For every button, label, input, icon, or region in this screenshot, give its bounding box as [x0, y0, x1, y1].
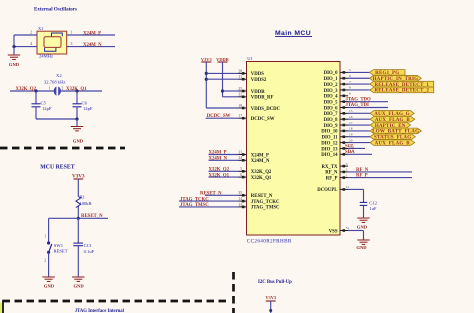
svg-text:7: 7 — [349, 80, 351, 84]
svg-text:2: 2 — [44, 259, 46, 263]
svg-text:12: 12 — [346, 185, 350, 189]
svg-text:5: 5 — [240, 167, 242, 171]
svg-text:X24M_N: X24M_N — [83, 43, 102, 48]
svg-text:5: 5 — [349, 68, 351, 72]
svg-text:MCU RESET: MCU RESET — [40, 164, 74, 170]
svg-text:DCOUPL: DCOUPL — [317, 188, 337, 193]
svg-text:External Oscillators: External Oscillators — [34, 7, 77, 12]
svg-text:DIO_14: DIO_14 — [321, 153, 338, 158]
svg-text:28: 28 — [238, 69, 242, 73]
svg-text:VDDS_DCDC: VDDS_DCDC — [251, 107, 281, 112]
svg-text:6: 6 — [240, 173, 242, 177]
svg-text:X1: X1 — [38, 26, 43, 31]
svg-text:RX_TX: RX_TX — [322, 165, 339, 170]
svg-text:X24M_P: X24M_P — [83, 31, 101, 36]
svg-text:32: 32 — [238, 93, 242, 97]
svg-text:DIO_13: DIO_13 — [321, 147, 338, 152]
svg-text:DIO_0: DIO_0 — [324, 71, 338, 76]
svg-text:13: 13 — [238, 203, 242, 207]
svg-text:16: 16 — [349, 115, 353, 119]
svg-text:JTAG Interface Internal: JTAG Interface Internal — [75, 309, 125, 313]
svg-text:X32K_Q1: X32K_Q1 — [251, 176, 272, 181]
svg-text:DIO_5: DIO_5 — [324, 100, 338, 105]
svg-text:8: 8 — [349, 86, 351, 90]
svg-text:GND: GND — [356, 245, 367, 250]
svg-text:18: 18 — [238, 104, 242, 108]
svg-text:VSS: VSS — [329, 229, 338, 234]
svg-text:3: 3 — [71, 42, 73, 46]
svg-text:3: 3 — [346, 162, 348, 166]
svg-text:DIO_9: DIO_9 — [324, 124, 338, 129]
svg-text:JTAG_TMSC: JTAG_TMSC — [251, 206, 280, 211]
svg-text:12pF: 12pF — [83, 106, 93, 111]
svg-text:12pF: 12pF — [42, 106, 52, 111]
svg-text:DIO_4: DIO_4 — [324, 95, 338, 100]
svg-text:RF_P: RF_P — [326, 176, 338, 181]
svg-text:DIO_1: DIO_1 — [324, 77, 338, 82]
svg-text:CC2640R2FRHBR: CC2640R2FRHBR — [247, 238, 292, 244]
svg-text:1: 1 — [44, 235, 46, 239]
svg-text:VDDR_RF: VDDR_RF — [251, 96, 274, 101]
svg-text:2: 2 — [346, 168, 348, 172]
svg-text:2: 2 — [30, 31, 32, 35]
svg-text:RF_N: RF_N — [325, 171, 338, 176]
svg-text:19: 19 — [349, 132, 353, 136]
svg-text:17: 17 — [238, 114, 242, 118]
svg-text:DIO_12: DIO_12 — [321, 141, 338, 146]
svg-text:14: 14 — [238, 197, 242, 201]
svg-text:X2: X2 — [56, 73, 62, 78]
svg-text:RF_P: RF_P — [356, 174, 368, 179]
svg-text:25: 25 — [238, 87, 242, 91]
svg-text:RF_N: RF_N — [356, 168, 369, 173]
svg-text:DIO_3: DIO_3 — [324, 89, 338, 94]
svg-text:X24M_P: X24M_P — [251, 153, 269, 158]
svg-text:34: 34 — [238, 156, 242, 160]
svg-text:GND: GND — [73, 139, 84, 144]
svg-text:JTAG_TDO: JTAG_TDO — [346, 97, 371, 102]
svg-text:C6: C6 — [82, 101, 88, 106]
svg-text:1uF: 1uF — [369, 206, 377, 211]
svg-text:2: 2 — [62, 87, 64, 91]
svg-text:DIO_7: DIO_7 — [324, 112, 338, 117]
svg-text:DCDC_SW: DCDC_SW — [251, 117, 275, 122]
svg-text:6: 6 — [349, 74, 351, 78]
svg-text:SDA: SDA — [345, 150, 355, 155]
svg-text:X32K_Q2: X32K_Q2 — [16, 87, 37, 92]
svg-text:VDDS: VDDS — [251, 72, 264, 77]
svg-text:C5: C5 — [41, 101, 47, 106]
svg-text:VDDS2: VDDS2 — [251, 78, 267, 83]
svg-text:GND: GND — [357, 224, 368, 229]
svg-text:C12: C12 — [369, 200, 377, 205]
svg-text:RELEASE_DETECT_2: RELEASE_DETECT_2 — [374, 89, 429, 94]
svg-text:0.1uF: 0.1uF — [84, 249, 95, 254]
svg-text:VDDR: VDDR — [251, 90, 265, 95]
svg-text:VDDR: VDDR — [216, 57, 230, 62]
svg-text:9: 9 — [349, 92, 351, 96]
svg-text:U1: U1 — [247, 56, 253, 61]
svg-text:R1: R1 — [80, 194, 86, 199]
svg-text:DIO_11: DIO_11 — [322, 136, 339, 141]
svg-text:X24M_N: X24M_N — [251, 159, 270, 164]
svg-text:JTAG_TCKC: JTAG_TCKC — [251, 200, 280, 205]
svg-text:V3V3: V3V3 — [265, 295, 277, 300]
svg-text:X32K_Q2: X32K_Q2 — [251, 170, 272, 175]
svg-text:V3V3: V3V3 — [201, 57, 213, 62]
svg-text:33: 33 — [238, 150, 242, 154]
svg-text:DIO_10: DIO_10 — [321, 130, 338, 135]
svg-text:15: 15 — [349, 109, 353, 113]
svg-text:32.768 kHz: 32.768 kHz — [44, 80, 65, 85]
svg-text:1: 1 — [346, 173, 348, 177]
svg-text:DIO_6: DIO_6 — [324, 106, 338, 111]
svg-text:AUX_FLAG_R: AUX_FLAG_R — [375, 141, 411, 146]
svg-text:C13: C13 — [84, 243, 92, 248]
svg-text:1: 1 — [71, 31, 73, 35]
svg-text:I2C Bus Pull-Up: I2C Bus Pull-Up — [258, 280, 292, 285]
svg-text:100kR: 100kR — [79, 201, 92, 206]
svg-text:GND: GND — [9, 62, 20, 67]
svg-text:DIO_2: DIO_2 — [324, 83, 338, 88]
svg-text:24MHz: 24MHz — [39, 53, 53, 58]
svg-text:SW1: SW1 — [54, 243, 64, 248]
svg-text:20: 20 — [349, 138, 353, 142]
svg-text:17: 17 — [349, 121, 353, 125]
svg-text:1: 1 — [49, 87, 51, 91]
svg-text:18: 18 — [349, 127, 353, 131]
svg-text:RESET_N: RESET_N — [251, 194, 273, 199]
svg-text:SCL: SCL — [345, 144, 354, 149]
svg-text:JTAG_TDI: JTAG_TDI — [346, 103, 369, 108]
svg-text:GND: GND — [44, 283, 55, 288]
svg-text:4: 4 — [30, 42, 32, 46]
svg-text:GND: GND — [73, 283, 84, 288]
svg-text:11: 11 — [239, 75, 243, 79]
svg-text:DIO_8: DIO_8 — [324, 118, 338, 123]
svg-text:RESET: RESET — [54, 249, 68, 254]
svg-text:31: 31 — [346, 226, 350, 230]
svg-text:35: 35 — [238, 191, 242, 195]
